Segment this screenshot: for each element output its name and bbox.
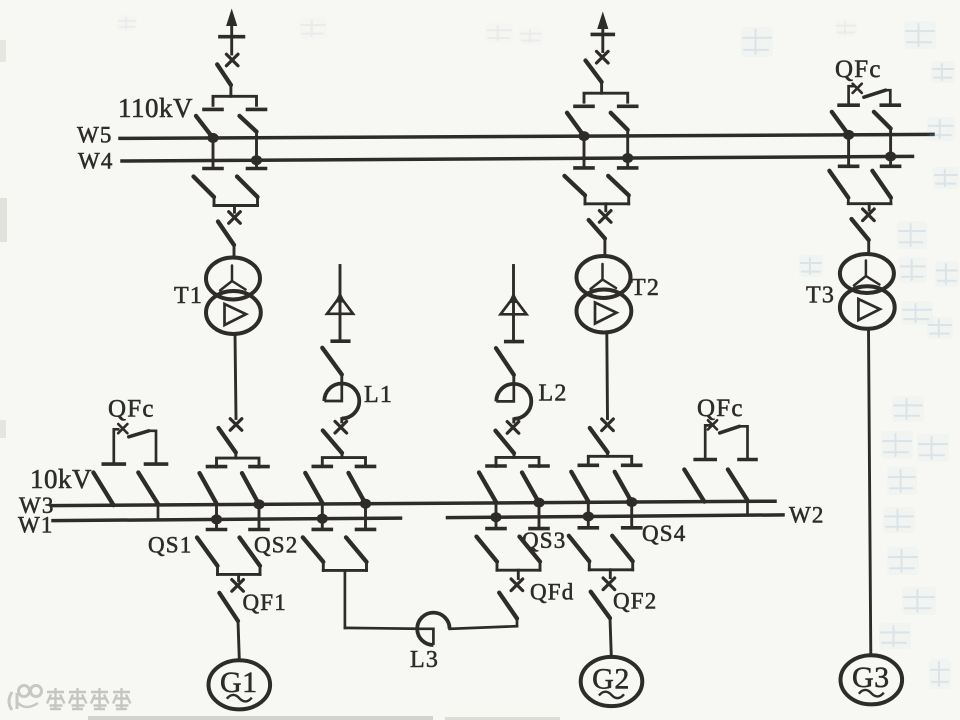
svg-text:G1: G1: [220, 666, 258, 699]
svg-text:QFc: QFc: [697, 395, 744, 422]
svg-text:L3: L3: [410, 647, 439, 673]
svg-text:QS4: QS4: [642, 521, 687, 546]
svg-text:QS2: QS2: [254, 533, 299, 558]
svg-text:W2: W2: [789, 503, 825, 528]
svg-text:W5: W5: [77, 123, 113, 148]
svg-text:QFc: QFc: [835, 56, 882, 83]
svg-text:W1: W1: [18, 513, 54, 538]
svg-text:QFc: QFc: [108, 396, 155, 423]
svg-text:T1: T1: [174, 283, 203, 309]
svg-text:L2: L2: [539, 381, 568, 407]
svg-text:QFd: QFd: [530, 580, 575, 605]
svg-text:T2: T2: [631, 275, 660, 301]
svg-text:QF2: QF2: [613, 589, 658, 614]
svg-text:110kV: 110kV: [118, 93, 193, 123]
svg-text:G3: G3: [852, 661, 890, 694]
svg-text:10kV: 10kV: [30, 464, 92, 494]
svg-text:W4: W4: [78, 149, 114, 174]
svg-text:G2: G2: [592, 663, 630, 696]
svg-text:T3: T3: [806, 283, 835, 309]
svg-text:QF1: QF1: [243, 590, 288, 615]
svg-text:QS3: QS3: [522, 528, 567, 553]
svg-text:QS1: QS1: [148, 533, 193, 558]
svg-text:L1: L1: [364, 382, 393, 408]
